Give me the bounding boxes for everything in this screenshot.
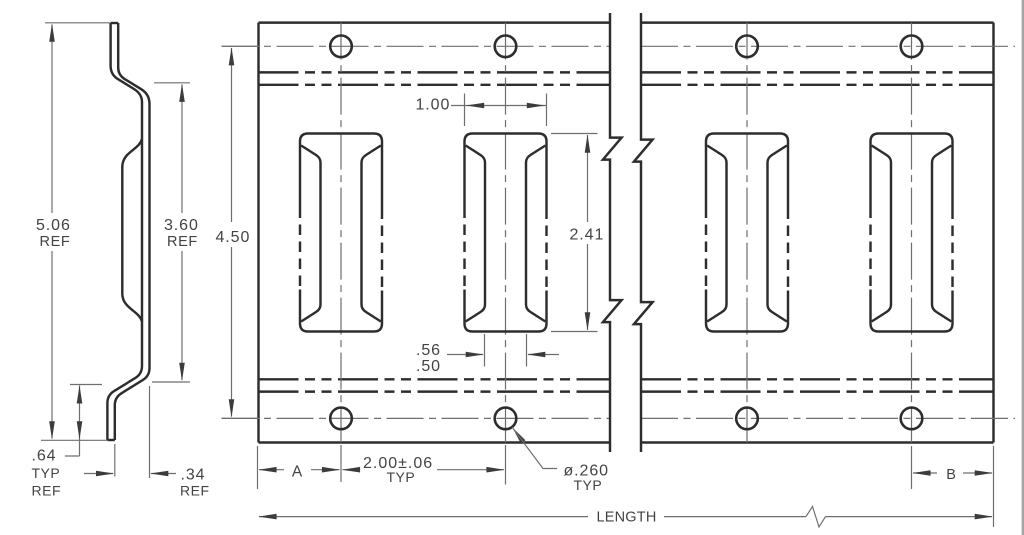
break line left (long-part interruption) [603, 13, 622, 452]
dim .64 extension line [70, 384, 102, 386]
svg-text:2.41: 2.41 [570, 227, 605, 244]
vertical centerline through hole/slot column 1 [340, 23, 342, 443]
slot 3 outline bottom (rounded) [706, 290, 788, 332]
mounting hole bottom row #2 [495, 408, 517, 430]
svg-text:TYP: TYP [32, 465, 61, 481]
LENGTH line break zigzag [806, 507, 826, 528]
slot 2 outline bottom (rounded) [465, 290, 547, 332]
slot 1 outline bottom (rounded) [300, 290, 382, 332]
svg-text:TYP: TYP [574, 477, 603, 493]
leader arrow for hole diameter callout [512, 427, 525, 443]
slot 1 hidden left edge (dashed) [299, 208, 301, 290]
svg-text:.50: .50 [416, 358, 441, 375]
dim .34 arrows (outside, pointing inward) [84, 473, 176, 475]
profile: inner (right) surface [115, 23, 150, 440]
svg-text:.56: .56 [416, 342, 441, 359]
second bottom bend line (phantom dashes, lower band) [259, 390, 994, 392]
window border right edge [1022, 0, 1024, 535]
dim 1.00 extension lines [465, 94, 547, 127]
dim B extension line at right edge [993, 446, 995, 527]
slot 2 hidden right edge (dashed) [545, 209, 547, 291]
right edge of rail (main view) [992, 23, 994, 443]
svg-text:REF: REF [40, 234, 71, 250]
svg-text:.34: .34 [181, 467, 206, 484]
dim A extension line at left edge [257, 446, 259, 489]
dim text 3.60 REF [160, 213, 202, 251]
slot 3 hidden left edge (dashed) [705, 208, 707, 290]
svg-text:REF: REF [180, 483, 210, 499]
bottom hole-row centerline [222, 417, 1016, 419]
slot 4 outline bottom (rounded) [871, 290, 953, 332]
slot 1 outline top (rounded) [300, 134, 382, 209]
mounting hole top row #1 [330, 36, 352, 58]
dim 4.50 dimension line [231, 48, 233, 417]
svg-text:LENGTH: LENGTH [597, 510, 657, 526]
slot 3 hidden right edge (dashed) [787, 209, 789, 291]
vertical centerline through hole/slot column 2 [505, 23, 507, 443]
extension line below hole 1 [340, 445, 342, 482]
left edge of rail (main view) [257, 23, 259, 443]
dim .64 dimension line + leader [65, 386, 80, 457]
profile: wall left surface between bumps [141, 139, 143, 322]
slot 2 left funnel / lance line [466, 146, 485, 322]
bottom bend line (phantom dashes) [259, 378, 994, 380]
leader line for hole diameter callout [512, 427, 557, 468]
dim B dimension line [913, 472, 992, 474]
dim 1.00 dimension line + text leader [449, 105, 547, 107]
svg-text:REF: REF [167, 234, 198, 250]
dim 2.00±.06 dimension line [343, 469, 505, 471]
profile: outer (left) surface with lanced tongue silhouette [107, 23, 142, 440]
svg-text:.64: .64 [32, 448, 57, 465]
extension line below hole 4 [911, 446, 913, 489]
svg-text:TYP: TYP [387, 469, 416, 485]
vertical centerline through hole/slot column 3 [746, 23, 748, 443]
dim 5.06 REF extension lines [41, 23, 110, 441]
dim .56/.50 arrows (outside, pointing inward) [447, 354, 559, 356]
extension line below hole 2 [505, 445, 507, 485]
dim 4.50 extension lines [222, 46, 261, 418]
second top bend line (phantom dashes) [259, 84, 994, 86]
mounting hole top row #3 [736, 36, 758, 58]
slot 4 hidden left edge (dashed) [869, 208, 871, 290]
slot 4 right funnel / lance line [932, 146, 951, 322]
svg-text:B: B [946, 467, 957, 483]
slot 2 outline top (rounded) [465, 134, 547, 209]
dim 3.60 REF dimension line [181, 85, 183, 381]
mounting hole top row #4 [901, 36, 923, 58]
svg-text:5.06: 5.06 [36, 217, 71, 234]
slot 1 right funnel / lance line [362, 146, 381, 322]
dim A dimension line [259, 469, 340, 471]
slot 4 hidden right edge (dashed) [951, 209, 953, 291]
slot 3 outline top (rounded) [706, 134, 788, 209]
mounting hole bottom row #4 [901, 408, 923, 430]
vertical centerline through hole/slot column 4 [911, 23, 913, 443]
svg-text:REF: REF [32, 483, 62, 499]
top hole-row centerline [222, 45, 1016, 47]
svg-text:4.50: 4.50 [216, 229, 251, 246]
top bend line (phantom dashes, upper band) [259, 71, 994, 73]
profile: top end cap [111, 22, 119, 24]
dim 2.41 dimension line [587, 135, 589, 330]
dim LENGTH dimension line with break [259, 516, 992, 518]
slot 2 hidden left edge (dashed) [463, 208, 465, 290]
profile: bottom end cap [107, 439, 114, 441]
dim .56/.50 extension lines [485, 334, 527, 367]
dim text 5.06 REF [33, 213, 75, 251]
slot 3 left funnel / lance line [707, 146, 726, 322]
bottom edge of rail (interrupted by break) [259, 441, 994, 443]
slot 3 right funnel / lance line [768, 146, 787, 322]
dim text 2.41 [565, 222, 607, 244]
slot 2 right funnel / lance line [526, 146, 545, 322]
dim 3.60 REF extension lines [152, 83, 190, 382]
slot 4 outline top (rounded) [871, 134, 953, 209]
svg-text:A: A [292, 464, 303, 481]
dim 2.41 extension lines [551, 134, 598, 332]
svg-text:1.00: 1.00 [416, 97, 451, 114]
mounting hole top row #2 [495, 36, 517, 58]
dim 5.06 REF dimension line [51, 25, 53, 439]
slot 1 hidden right edge (dashed) [381, 209, 383, 291]
dim text 1.00 [411, 94, 451, 114]
dim .34 extension lines [115, 386, 150, 478]
break line right [634, 13, 653, 452]
svg-text:3.60: 3.60 [164, 217, 199, 234]
dim text 4.50 [211, 222, 255, 247]
slot 1 left funnel / lance line [301, 146, 320, 322]
mounting hole bottom row #1 [330, 408, 352, 430]
mounting hole bottom row #3 [736, 408, 758, 430]
top edge of rail (interrupted by break) [259, 21, 994, 23]
slot 4 left funnel / lance line [872, 146, 891, 322]
